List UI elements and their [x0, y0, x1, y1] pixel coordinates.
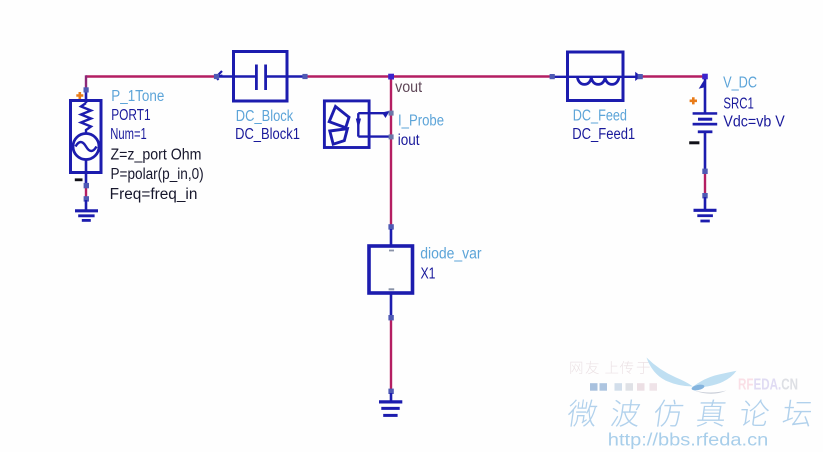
- wire: main top rail W1: [86, 75, 218, 77]
- pin arrow: DC_Feed output: [635, 72, 641, 81]
- pin square: probe bottom: [389, 134, 394, 139]
- pin arrow: vdc top: [699, 81, 705, 89]
- vdc plus mark: [690, 97, 697, 104]
- svg-text:vout: vout: [395, 79, 423, 96]
- wire: vdc ground stub: [704, 197, 707, 210]
- svg-text:Vdc=vb V: Vdc=vb V: [723, 114, 785, 131]
- svg-text:Freq=freq_in: Freq=freq_in: [110, 186, 198, 203]
- pin square: port top: [84, 87, 89, 92]
- diode diode_var X1 symbol box: [369, 246, 413, 293]
- node vout junction square: [388, 74, 394, 80]
- svg-text:P=polar(p_in,0): P=polar(p_in,0): [111, 166, 204, 183]
- port P_1Tone PORT1 symbol: [71, 92, 102, 184]
- svg-text:DC_Feed1: DC_Feed1: [572, 126, 635, 143]
- svg-text:DC_Feed: DC_Feed: [573, 108, 627, 125]
- svg-text:RFEDA.CN: RFEDA.CN: [738, 376, 798, 393]
- pin square: DC_Feed in: [550, 74, 555, 79]
- inductor coil and leads: [552, 77, 637, 85]
- battery V_DC SRC1 symbol: [693, 112, 718, 133]
- wire: diode top stub: [390, 229, 393, 246]
- wire: vout vertical W2: [390, 77, 392, 227]
- svg-text:DC_Block: DC_Block: [236, 108, 294, 125]
- pin arrow: probe top: [382, 111, 390, 118]
- port plus polarity mark: [76, 92, 83, 99]
- pin square: diode bottom 2: [388, 389, 393, 394]
- probe meter wedges: [329, 107, 349, 145]
- watermark: forum calligraphy: [566, 399, 598, 426]
- watermark: bird body: [691, 384, 705, 392]
- probe lead bottom: [358, 135, 389, 137]
- inductor DC_Feed1 symbol box: [568, 52, 624, 101]
- pin square: vdc bottom 2: [702, 193, 707, 198]
- wire: port ground stub: [85, 200, 88, 210]
- wire: rail segment DC_Block to DC_Feed: [305, 75, 552, 77]
- ground: vdc ground symbol: [694, 210, 717, 221]
- svg-text:V_DC: V_DC: [723, 75, 757, 92]
- vdc minus mark: [689, 141, 699, 144]
- pin square: probe top: [389, 111, 394, 116]
- wire: vdc top lead: [704, 79, 707, 113]
- pin arrow: DC_Block input: [216, 71, 223, 80]
- wire: vdc bottom lead: [704, 133, 707, 170]
- svg-text:diode_var: diode_var: [420, 245, 481, 262]
- current probe I_Probe symbol box: [324, 101, 369, 148]
- wire: vdc lower vertical W5: [704, 170, 706, 196]
- capacitor plates and leads: [219, 65, 305, 91]
- wire: rail segment DC_Feed to V_DC: [642, 75, 704, 77]
- probe lead top: [358, 112, 387, 114]
- pin square: diode bottom 1: [388, 315, 393, 320]
- svg-text:SRC1: SRC1: [723, 96, 754, 113]
- pin square: DC_Block out: [302, 74, 307, 79]
- watermark: gray swoosh: [694, 391, 727, 394]
- pin square: diode top: [388, 224, 393, 229]
- svg-text:http://bbs.rfeda.cn: http://bbs.rfeda.cn: [608, 430, 769, 450]
- watermark: bird logo left wing: [647, 358, 694, 387]
- pin square: DC_Feed out: [638, 74, 643, 79]
- pin square: vdc bottom 1: [702, 169, 707, 174]
- diode pin2 tiny mark: [389, 288, 395, 290]
- watermark: bird logo right wing: [693, 371, 737, 387]
- svg-text:X1: X1: [421, 266, 436, 283]
- watermark: faint uploader text: [570, 362, 582, 374]
- pin square: DC_Block in: [214, 74, 219, 79]
- ground: port ground symbol: [75, 211, 98, 221]
- diode pin1 tiny mark: [389, 250, 394, 252]
- svg-text:P_1Tone: P_1Tone: [111, 88, 164, 105]
- svg-text:PORT1: PORT1: [111, 107, 150, 124]
- port minus polarity mark: [75, 178, 83, 181]
- probe inner lead vertical with down arrow: [357, 113, 359, 136]
- pin square: port bottom 1: [84, 183, 89, 188]
- capacitor DC_Block1 symbol box: [234, 52, 288, 102]
- wire: diode lower vertical W3: [390, 318, 392, 392]
- wire: diode bottom stub: [390, 293, 393, 316]
- svg-text:DC_Block1: DC_Block1: [235, 126, 300, 143]
- ground: diode ground symbol: [379, 402, 402, 416]
- svg-text:Num=1: Num=1: [110, 126, 147, 143]
- svg-text:I_Probe: I_Probe: [398, 112, 444, 129]
- watermark: pixel squares row: [590, 383, 598, 391]
- svg-text:Z=z_port Ohm: Z=z_port Ohm: [111, 147, 202, 164]
- wire: port lower vertical W4: [85, 184, 87, 198]
- pin square: port bottom 2: [84, 196, 89, 201]
- wire: diode ground stub: [390, 393, 393, 401]
- node: vdc junction square: [702, 74, 708, 80]
- wire: port top vertical drop: [85, 75, 87, 88]
- svg-text:iout: iout: [398, 132, 420, 149]
